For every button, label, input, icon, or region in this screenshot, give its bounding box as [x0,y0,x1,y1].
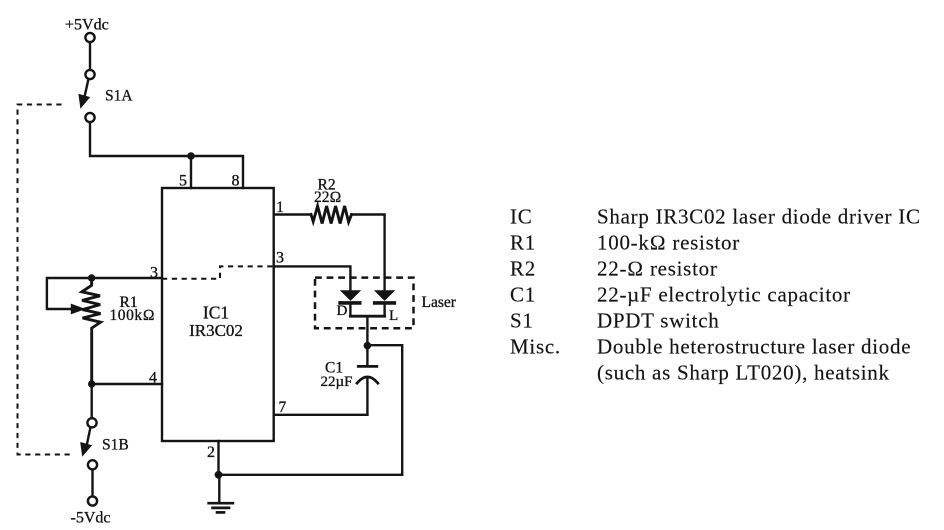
junction dot at pin 5 rail [187,152,195,160]
svg-text:IC: IC [510,205,532,229]
svg-text:S1B: S1B [102,436,129,453]
junction dot pin 4 [88,380,95,387]
wire S1B to -5Vdc terminal [91,470,93,496]
svg-text:-5Vdc: -5Vdc [71,509,111,526]
capacitor C1 [356,366,379,414]
svg-text:L: L [389,308,398,324]
pin 5 lead [190,156,192,188]
wire cathode bus [350,315,384,318]
laser module dashed box [315,278,414,329]
svg-text:22-Ω resistor: 22-Ω resistor [597,257,718,281]
parts list [510,205,921,385]
svg-text:IR3C02: IR3C02 [189,321,243,340]
wire cathodes to junction [366,316,368,345]
junction dot ground node [215,471,223,479]
svg-text:S1: S1 [510,309,534,333]
wire pin 4 [92,383,162,385]
wire S1A to top rail of IC pins 5,8 [90,123,243,188]
wire pin 3 right to diode D anode [274,266,351,291]
svg-text:100-kΩ resistor: 100-kΩ resistor [597,231,740,255]
svg-text:S1A: S1A [105,88,133,105]
ground [207,475,234,513]
junction dot laser return [364,342,372,350]
switch S1A [78,70,94,122]
svg-text:Sharp IR3C02 laser diode drive: Sharp IR3C02 laser diode driver IC [597,205,921,229]
wire pin 3 left to R1 top [92,277,162,279]
svg-text:IC1: IC1 [203,303,229,323]
wire bottom rail [219,474,403,476]
svg-text:D: D [337,303,348,319]
potentiometer wiper arrow [71,304,86,315]
wire junction to bottom rail [367,345,402,475]
wire R1 bottom to S1B [90,384,92,418]
svg-text:+5Vdc: +5Vdc [65,17,109,34]
svg-text:R1: R1 [510,231,536,255]
wire pin 2 [217,441,219,475]
op-amp IC1 IR3C02 body [162,188,274,441]
svg-text:Misc.: Misc. [510,335,561,359]
resistor R2 [311,206,352,224]
svg-text:(such as Sharp LT020), heatsin: (such as Sharp LT020), heatsink [597,361,890,385]
svg-text:C1: C1 [510,283,536,307]
svg-text:R2: R2 [510,257,536,281]
wire pin 7 to C1 [274,414,368,416]
svg-text:1: 1 [276,199,284,216]
terminal +5Vdc [85,33,94,42]
wire wiper loop [47,278,92,309]
svg-text:DPDT switch: DPDT switch [597,309,719,333]
junction dot R1 top [88,274,95,281]
terminal -5Vdc [88,496,97,505]
dashed DPDT gang link S1A-S1B [18,105,74,455]
internal dashed link pin3-pin3 [162,266,274,278]
diode D (photodiode) [338,290,361,316]
wire R2 to laser diode L anode [352,215,385,292]
diode L (laser diode) [373,290,396,316]
svg-text:7: 7 [279,399,287,416]
wire +5Vdc terminal to S1A pole [89,43,91,70]
switch S1B [80,418,97,469]
svg-text:Double heterostructure laser d: Double heterostructure laser diode [597,335,911,359]
svg-text:22Ω: 22Ω [314,189,341,206]
svg-text:4: 4 [149,370,157,387]
wire pin 1 to R2 [274,213,311,215]
svg-text:22-µF electrolytic capacitor: 22-µF electrolytic capacitor [597,283,851,307]
svg-text:22µF: 22µF [321,374,353,390]
svg-text:2: 2 [207,444,215,461]
svg-text:3: 3 [276,250,284,267]
resistor R1 [82,278,101,384]
svg-text:Laser: Laser [422,294,457,311]
svg-text:100kΩ: 100kΩ [110,307,156,324]
wire junction to C1 [366,346,368,367]
